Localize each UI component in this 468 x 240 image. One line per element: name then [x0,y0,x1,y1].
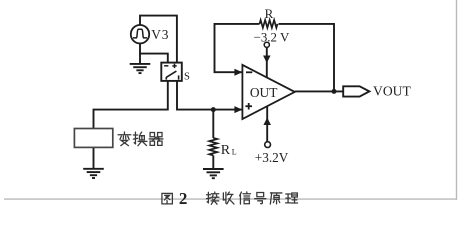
svg-text:R: R [221,143,231,158]
svg-text:2: 2 [179,189,188,208]
svg-text:R: R [265,6,274,21]
svg-text:S: S [184,72,190,83]
svg-text:OUT: OUT [250,85,278,100]
svg-text:V3: V3 [151,27,169,42]
svg-text:VOUT: VOUT [373,84,411,99]
svg-text:L: L [232,148,237,157]
svg-text:+3.2V: +3.2V [255,150,289,165]
svg-text:−3.2 V: −3.2 V [254,30,290,44]
